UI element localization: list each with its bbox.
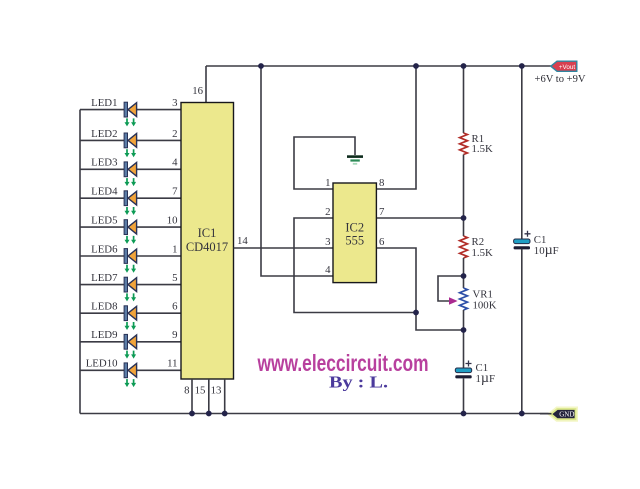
svg-text:IC2: IC2 xyxy=(345,221,364,235)
op IC1 CD4017 body xyxy=(181,103,234,380)
resistor R1 xyxy=(460,133,493,155)
wire LED5 row right segment to IC1 xyxy=(137,226,181,228)
svg-text:IC1: IC1 xyxy=(198,226,217,240)
wire R1 to junction xyxy=(463,155,465,237)
wire IC2 pin 4 to top rail xyxy=(261,66,333,276)
wire LED10 row right segment to IC1 xyxy=(137,369,181,371)
wire IC1 pin 16 stub xyxy=(205,66,207,103)
svg-text:LED1: LED1 xyxy=(91,97,117,109)
LED2 xyxy=(124,133,137,157)
wire C1 to bottom rail xyxy=(521,249,523,414)
svg-text:10: 10 xyxy=(167,215,178,227)
svg-text:7: 7 xyxy=(379,206,385,218)
LED10 xyxy=(124,363,137,387)
junction node xyxy=(461,215,467,221)
wire VR1 wiper loop xyxy=(438,276,464,301)
svg-text:15: 15 xyxy=(195,385,206,397)
svg-text:16: 16 xyxy=(192,85,203,97)
junction node xyxy=(189,411,195,417)
junction node xyxy=(519,63,525,69)
wire C2 to bottom rail xyxy=(463,378,465,413)
svg-text:6: 6 xyxy=(379,236,385,248)
top power rail wire xyxy=(206,65,551,67)
wire IC1 pin 13 bottom stub xyxy=(224,379,226,414)
wire LED6 row right segment to IC1 xyxy=(137,255,181,257)
wire IC2 pin 2 to junction below xyxy=(294,218,416,313)
svg-text:1µF: 1µF xyxy=(476,371,496,386)
junction node xyxy=(461,273,467,279)
wire LED9 row left segment xyxy=(80,341,125,343)
node GND tag xyxy=(540,409,576,419)
svg-text:LED5: LED5 xyxy=(91,215,117,227)
svg-text:13: 13 xyxy=(211,385,222,397)
svg-text:LED3: LED3 xyxy=(91,157,117,169)
wire IC2 pin 8 to top rail xyxy=(376,66,416,189)
junction node xyxy=(461,411,467,417)
svg-text:8: 8 xyxy=(379,177,384,189)
svg-text:LED2: LED2 xyxy=(91,128,117,140)
wire LED10 row left segment xyxy=(80,369,125,371)
svg-text:3: 3 xyxy=(325,236,330,248)
svg-text:7: 7 xyxy=(172,186,178,198)
resistor R2 xyxy=(460,236,493,259)
junction node xyxy=(461,63,467,69)
junction node xyxy=(413,310,419,316)
junction node xyxy=(519,411,525,417)
potentiometer VR1 xyxy=(449,288,497,312)
svg-text:1: 1 xyxy=(325,177,330,189)
wire IC2 pin 6 down to VR1 bottom xyxy=(376,248,463,330)
junction node xyxy=(461,327,467,333)
wire R2 to VR1 xyxy=(463,258,465,288)
svg-text:6: 6 xyxy=(172,301,178,313)
svg-text:1.5K: 1.5K xyxy=(472,143,493,155)
svg-text:8: 8 xyxy=(184,385,189,397)
wire LED2 row right segment to IC1 xyxy=(137,139,181,141)
LED3 xyxy=(124,162,137,186)
wire LED3 row right segment to IC1 xyxy=(137,168,181,170)
svg-text:LED10: LED10 xyxy=(86,358,118,370)
svg-text:+Vout: +Vout xyxy=(559,64,576,71)
LED7 xyxy=(124,277,137,301)
svg-text:LED4: LED4 xyxy=(91,186,118,198)
svg-text:CD4017: CD4017 xyxy=(186,240,228,254)
wire LED4 row right segment to IC1 xyxy=(137,197,181,199)
ground xyxy=(347,155,363,164)
svg-text:2: 2 xyxy=(172,128,177,140)
LED6 xyxy=(124,249,137,273)
svg-text:14: 14 xyxy=(237,235,248,247)
LED4 xyxy=(124,191,137,215)
wire LED1 row right segment to IC1 xyxy=(137,109,181,111)
wire LED7 row left segment xyxy=(80,284,125,286)
bottom ground rail wire xyxy=(80,413,551,415)
wire VR1 to C2 xyxy=(463,310,465,368)
wire LED1 row left segment xyxy=(80,109,125,111)
wire LED7 row right segment to IC1 xyxy=(137,284,181,286)
svg-text:4: 4 xyxy=(172,157,178,169)
LED9 xyxy=(124,334,137,358)
wire LED8 row left segment xyxy=(80,312,125,314)
wire IC2 pin 1 to ground xyxy=(294,137,355,189)
LED8 xyxy=(124,306,137,330)
svg-text:1.5K: 1.5K xyxy=(472,247,493,259)
wire LED6 row left segment xyxy=(80,255,125,257)
wire left anode bus xyxy=(79,110,81,414)
svg-text:2: 2 xyxy=(325,206,330,218)
wire top rail to R1 xyxy=(463,66,465,133)
wire IC1 pin 14 to IC2 pin 3 xyxy=(234,247,334,249)
svg-text:By : L.: By : L. xyxy=(329,373,388,392)
svg-text:11: 11 xyxy=(167,358,177,370)
wire LED4 row left segment xyxy=(80,197,125,199)
svg-text:4: 4 xyxy=(325,264,331,276)
svg-text:LED9: LED9 xyxy=(91,329,117,341)
wire LED5 row left segment xyxy=(80,226,125,228)
wire LED2 row left segment xyxy=(80,139,125,141)
LED5 xyxy=(124,220,137,244)
wire IC1 pin 8 bottom stub xyxy=(191,379,193,414)
svg-text:LED6: LED6 xyxy=(91,243,118,255)
capacitor C1 1uF xyxy=(455,361,495,387)
svg-text:10µF: 10µF xyxy=(534,243,559,258)
svg-text:LED7: LED7 xyxy=(91,272,118,284)
svg-text:9: 9 xyxy=(172,329,177,341)
wire LED8 row right segment to IC1 xyxy=(137,312,181,314)
svg-text:1: 1 xyxy=(172,243,177,255)
junction node xyxy=(413,63,419,69)
junction node xyxy=(222,411,228,417)
svg-text:GND: GND xyxy=(559,411,574,419)
wire IC2 pin 7 to R1/R2 junction xyxy=(376,217,463,219)
svg-text:555: 555 xyxy=(345,234,364,248)
svg-text:LED8: LED8 xyxy=(91,301,117,313)
op IC2 555 body xyxy=(333,183,376,283)
junction node xyxy=(258,63,264,69)
wire top rail down to C1 xyxy=(521,66,523,239)
svg-text:5: 5 xyxy=(172,272,177,284)
svg-text:3: 3 xyxy=(172,97,177,109)
capacitor C1 10uF xyxy=(514,231,559,258)
wire IC1 pin 15 bottom stub xyxy=(208,379,210,414)
wire LED9 row right segment to IC1 xyxy=(137,341,181,343)
svg-text:100K: 100K xyxy=(473,300,497,312)
LED1 xyxy=(124,102,137,126)
junction node xyxy=(206,411,212,417)
node +Vout tag xyxy=(551,61,577,71)
wire LED3 row left segment xyxy=(80,168,125,170)
svg-text:+6V to +9V: +6V to +9V xyxy=(535,73,586,85)
